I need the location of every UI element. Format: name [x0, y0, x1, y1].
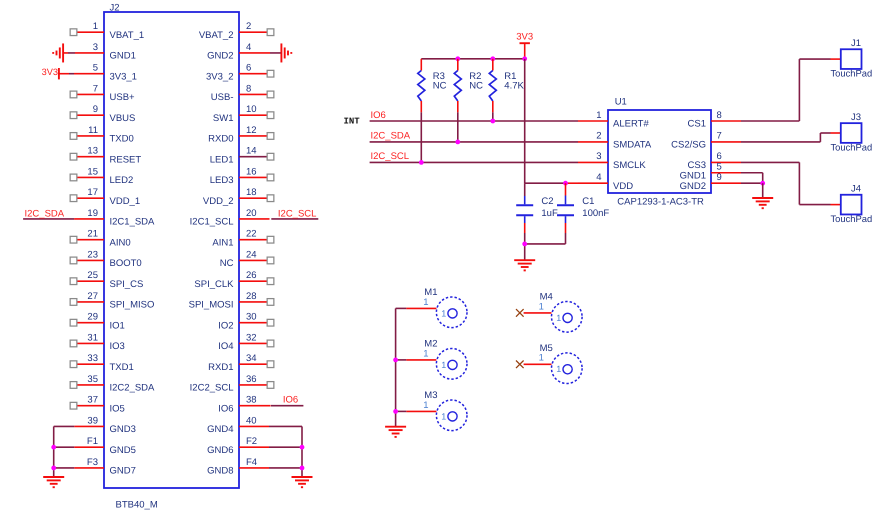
svg-text:I2C_SDA: I2C_SDA — [25, 209, 65, 220]
J2 pin 27 (SPI_MISO) — [70, 291, 154, 311]
svg-text:TXD1: TXD1 — [110, 362, 134, 373]
svg-text:16: 16 — [246, 166, 257, 177]
svg-text:VDD_1: VDD_1 — [110, 196, 141, 207]
J2 pin 5 (3V3_1) — [59, 63, 137, 83]
J2 pin 37 (IO5) — [70, 395, 125, 415]
svg-text:LED3: LED3 — [210, 175, 234, 186]
no-connect X at M5 — [516, 361, 524, 369]
net label I2C_SCL (at U1) — [371, 151, 410, 162]
wire M2 stub — [396, 359, 437, 361]
svg-text:SPI_MISO: SPI_MISO — [110, 300, 155, 311]
svg-text:TouchPad: TouchPad — [830, 141, 872, 152]
net label IO6 (at INT wire) — [371, 110, 386, 121]
svg-text:F1: F1 — [87, 436, 98, 447]
svg-text:IO3: IO3 — [110, 341, 125, 352]
U1 pin 8 (CS1) — [688, 110, 741, 130]
svg-text:1: 1 — [441, 308, 446, 318]
port INT — [344, 117, 361, 127]
wire R3 bottom to net — [420, 112, 422, 162]
wire 3V3 vertical down to VDD node — [524, 59, 526, 183]
svg-text:USB-: USB- — [211, 92, 234, 103]
resistor R1 (4.7K) — [489, 59, 524, 113]
J2 pin 14 (LED1) — [210, 146, 274, 166]
junction rail at R2 — [455, 56, 460, 61]
svg-text:1: 1 — [441, 360, 446, 370]
J2 pin 33 (TXD1) — [70, 353, 134, 373]
svg-text:J3: J3 — [851, 112, 861, 123]
svg-text:35: 35 — [87, 374, 98, 385]
U1 pin 3 (SMCLK) — [578, 151, 646, 171]
net label I2C_SDA (left) — [25, 209, 65, 220]
J2 pin 25 (SPI_CS) — [70, 270, 143, 290]
svg-text:TouchPad: TouchPad — [830, 213, 872, 224]
svg-text:2: 2 — [246, 21, 251, 32]
wire net I2C_SCL (J2 pin 20) — [271, 218, 318, 220]
svg-text:18: 18 — [246, 187, 257, 198]
svg-text:22: 22 — [246, 229, 257, 240]
J2 pin 2 (VBAT_2) — [199, 21, 274, 41]
J2 pin F2 (GND6) — [207, 436, 302, 456]
svg-text:F2: F2 — [246, 436, 257, 447]
junction at F4/GND8 — [300, 466, 305, 471]
svg-text:I2C_SDA: I2C_SDA — [371, 131, 411, 142]
op-amp / IC U1 body (CAP1293-1-AC3-TR) — [608, 97, 711, 208]
resistor R3 (NC) — [418, 59, 447, 113]
ground symbol at J2 pin 4 — [281, 43, 291, 62]
svg-text:USB+: USB+ — [110, 92, 136, 103]
J2 pin 30 (IO2) — [218, 312, 274, 332]
svg-text:1: 1 — [423, 348, 428, 359]
svg-text:SMDATA: SMDATA — [613, 140, 652, 151]
J2 pin 9 (VBUS) — [70, 104, 135, 124]
U1 pin 2 (SMDATA) — [578, 131, 652, 151]
U1 pin 4 (VDD) — [578, 172, 633, 192]
svg-text:C1: C1 — [582, 196, 594, 207]
svg-text:I2C_SCL: I2C_SCL — [278, 209, 317, 220]
svg-text:CS3: CS3 — [688, 160, 706, 171]
U1 pin 6 (CS3) — [688, 151, 741, 171]
svg-text:12: 12 — [246, 125, 257, 136]
svg-text:TXD0: TXD0 — [110, 134, 134, 145]
J2 pin 13 (RESET) — [70, 146, 141, 166]
svg-text:24: 24 — [246, 249, 257, 260]
J2 pin 28 (SPI_MOSI) — [189, 291, 274, 311]
svg-text:3V3_2: 3V3_2 — [206, 71, 233, 82]
svg-text:I2C1_SDA: I2C1_SDA — [110, 217, 156, 228]
svg-text:10: 10 — [246, 104, 257, 115]
svg-text:F4: F4 — [246, 457, 257, 468]
wire INT / IO6 to U1 ALERT# — [370, 120, 578, 122]
svg-text:19: 19 — [87, 208, 98, 219]
J2 pin 31 (IO3) — [70, 332, 125, 352]
wire U1 ground stem — [762, 183, 764, 198]
svg-text:RESET: RESET — [110, 154, 142, 165]
junction at M2 — [393, 358, 398, 363]
J2 pin 4 (GND2) — [207, 42, 281, 62]
svg-text:IO1: IO1 — [110, 320, 125, 331]
J2 pin 15 (LED2) — [70, 166, 133, 186]
wire M5 stub — [524, 363, 552, 365]
svg-text:13: 13 — [87, 146, 98, 157]
U1 pin 1 (ALERT#) — [578, 110, 649, 130]
svg-text:SW1: SW1 — [213, 113, 234, 124]
junction R3 at net — [419, 160, 424, 165]
svg-text:IO6: IO6 — [371, 110, 386, 121]
svg-text:2: 2 — [596, 131, 601, 142]
U1 pin 7 (CS2/SG) — [671, 131, 741, 151]
svg-text:9: 9 — [93, 104, 98, 115]
svg-text:1uF: 1uF — [541, 208, 558, 219]
J2 pin 21 (AIN0) — [70, 229, 130, 249]
mounting hole M3 — [423, 390, 467, 431]
svg-text:GND1: GND1 — [110, 51, 136, 62]
wire R1 bottom to net — [492, 112, 494, 121]
wire M4 stub — [524, 312, 552, 314]
svg-text:8: 8 — [246, 83, 251, 94]
mounting hole M2 — [423, 339, 467, 380]
svg-text:23: 23 — [87, 249, 98, 260]
svg-text:39: 39 — [87, 415, 98, 426]
svg-text:CS1: CS1 — [688, 119, 706, 130]
svg-text:6: 6 — [717, 151, 722, 162]
J2 pin 8 (USB-) — [211, 83, 274, 103]
svg-text:38: 38 — [246, 395, 257, 406]
svg-text:40: 40 — [246, 415, 257, 426]
connector J3 (TouchPad) — [830, 112, 872, 152]
wire U1 GND1 to GND2 — [741, 173, 763, 183]
svg-text:GND2: GND2 — [207, 51, 233, 62]
svg-text:30: 30 — [246, 312, 257, 323]
svg-text:26: 26 — [246, 270, 257, 281]
junction rail at 3V3 drop — [522, 56, 527, 61]
J2 pin F1 (GND5) — [54, 436, 136, 456]
svg-text:4.7K: 4.7K — [504, 80, 524, 91]
wire 3V3 rail over resistors — [421, 58, 524, 60]
connector J1 (TouchPad) — [830, 38, 872, 78]
svg-text:GND5: GND5 — [110, 445, 136, 456]
svg-text:SPI_MOSI: SPI_MOSI — [189, 300, 234, 311]
connector J4 (TouchPad) — [830, 184, 872, 224]
U1 pin 5 (GND1) — [680, 162, 741, 182]
svg-text:21: 21 — [87, 229, 98, 240]
svg-text:VBUS: VBUS — [110, 113, 136, 124]
J2 pin 3 (GND1) — [63, 42, 136, 62]
svg-text:GND3: GND3 — [110, 424, 136, 435]
svg-text:SMCLK: SMCLK — [613, 160, 646, 171]
svg-text:29: 29 — [87, 312, 98, 323]
svg-text:5: 5 — [717, 162, 722, 173]
svg-text:27: 27 — [87, 291, 98, 302]
J2 pin 6 (3V3_2) — [206, 63, 274, 83]
svg-text:I2C2_SCL: I2C2_SCL — [190, 383, 234, 394]
svg-text:31: 31 — [87, 332, 98, 343]
svg-text:34: 34 — [246, 353, 257, 364]
svg-text:11: 11 — [88, 125, 98, 136]
svg-text:4: 4 — [596, 172, 601, 183]
svg-text:3V3: 3V3 — [516, 32, 533, 43]
svg-text:I2C_SCL: I2C_SCL — [371, 151, 410, 162]
svg-text:LED1: LED1 — [210, 154, 234, 165]
wire mounting-hole ground bus — [395, 308, 397, 426]
svg-text:GND2: GND2 — [680, 181, 706, 192]
J2 pin 32 (IO4) — [218, 332, 274, 352]
svg-text:AIN1: AIN1 — [212, 237, 233, 248]
svg-text:IO6: IO6 — [283, 394, 298, 405]
J2 pin 39 (GND3) — [54, 415, 136, 435]
svg-text:5: 5 — [93, 63, 98, 74]
svg-text:J2: J2 — [110, 3, 120, 14]
svg-text:36: 36 — [246, 374, 257, 385]
svg-text:1: 1 — [556, 364, 561, 374]
svg-text:I2C2_SDA: I2C2_SDA — [110, 383, 156, 394]
mounting hole M4 — [539, 292, 583, 333]
svg-text:14: 14 — [246, 146, 257, 157]
svg-text:IO4: IO4 — [218, 341, 233, 352]
svg-text:1: 1 — [423, 400, 428, 411]
wire GND bus right of J2 (pins 40/F2/F4) — [301, 426, 303, 477]
svg-text:BOOT0: BOOT0 — [110, 258, 142, 269]
svg-text:IO2: IO2 — [218, 320, 233, 331]
J2 pin 12 (RXD0) — [208, 125, 274, 145]
svg-text:25: 25 — [87, 270, 98, 281]
junction at F3/GND7 — [51, 466, 56, 471]
svg-text:AIN0: AIN0 — [110, 237, 131, 248]
svg-text:6: 6 — [246, 63, 251, 74]
J2 pin F4 (GND8) — [207, 457, 302, 477]
junction at F2/GND6 — [300, 445, 305, 450]
wire net IO6 (J2 pin 38) — [271, 405, 303, 407]
svg-text:INT: INT — [344, 117, 361, 127]
svg-text:RXD1: RXD1 — [208, 362, 233, 373]
no-connect X at M4 — [516, 309, 524, 317]
ground at U1 — [752, 198, 773, 208]
svg-text:7: 7 — [93, 83, 98, 94]
svg-text:VBAT_1: VBAT_1 — [110, 30, 145, 41]
ground below C2/C1 — [514, 260, 535, 270]
svg-text:ALERT#: ALERT# — [613, 119, 649, 130]
svg-text:3V3: 3V3 — [42, 67, 58, 77]
resistor R2 (NC) — [454, 59, 483, 113]
J2 pin 10 (SW1) — [213, 104, 274, 124]
J2 pin 22 (AIN1) — [212, 229, 273, 249]
wire CS net to J1 — [741, 59, 831, 121]
svg-text:17: 17 — [87, 187, 98, 198]
ground below J2 left — [43, 477, 64, 487]
J2 pin 34 (RXD1) — [208, 353, 274, 373]
svg-text:28: 28 — [246, 291, 257, 302]
svg-text:1: 1 — [556, 313, 561, 323]
junction R2 at net — [455, 140, 460, 145]
svg-text:IO5: IO5 — [110, 403, 125, 414]
svg-text:SPI_CS: SPI_CS — [110, 279, 144, 290]
wire I2C_SCL to U1 SMCLK — [370, 161, 578, 163]
mounting hole M5 — [539, 343, 583, 384]
power symbol 3V3 (top) — [516, 32, 533, 59]
svg-text:VDD: VDD — [613, 181, 633, 192]
junction R1 at net — [490, 119, 495, 124]
wire CS net to J4 — [741, 162, 831, 204]
svg-text:SPI_CLK: SPI_CLK — [194, 279, 234, 290]
J2 pin 18 (VDD_2) — [203, 187, 274, 207]
J2 pin 35 (I2C2_SDA) — [70, 374, 155, 394]
junction at F1/GND5 — [51, 445, 56, 450]
svg-text:3: 3 — [93, 42, 98, 53]
svg-text:LED2: LED2 — [110, 175, 134, 186]
wire C2/C1 bottoms to ground — [525, 244, 566, 260]
svg-text:37: 37 — [87, 395, 98, 406]
svg-text:4: 4 — [246, 42, 251, 53]
svg-text:9: 9 — [717, 172, 722, 183]
svg-text:NC: NC — [433, 80, 447, 91]
svg-text:VBAT_2: VBAT_2 — [199, 30, 234, 41]
net label I2C_SCL (right of J2) — [278, 209, 317, 220]
net label IO6 (right of J2) — [283, 394, 298, 405]
J2 pin 1 (VBAT_1) — [70, 21, 144, 41]
net label I2C_SDA (at U1) — [371, 131, 411, 142]
J2 pin 29 (IO1) — [70, 312, 125, 332]
capacitor C2 (1uF) — [516, 183, 558, 244]
J2 pin 40 (GND4) — [207, 415, 302, 435]
svg-text:RXD0: RXD0 — [208, 134, 233, 145]
J2 pin 17 (VDD_1) — [70, 187, 140, 207]
svg-text:8: 8 — [717, 110, 722, 121]
capacitor C1 (100nF) — [557, 183, 609, 244]
svg-text:U1: U1 — [615, 97, 627, 108]
svg-text:1: 1 — [93, 21, 98, 32]
J2 pin 23 (BOOT0) — [70, 249, 142, 269]
ground symbol at J2 pin 3 — [53, 43, 63, 62]
svg-text:BTB40_M: BTB40_M — [116, 500, 158, 511]
J2 pin 26 (SPI_CLK) — [194, 270, 273, 290]
ground below M3 — [385, 427, 406, 437]
wire VDD node to U1 pin 4 — [525, 182, 578, 184]
svg-text:F3: F3 — [87, 457, 98, 468]
junction C1 tap at VDD — [563, 181, 568, 186]
J2 pin F3 (GND7) — [54, 457, 136, 477]
J2 pin 11 (TXD0) — [70, 125, 134, 145]
svg-text:GND1: GND1 — [680, 170, 706, 181]
wire M3 stub — [396, 410, 437, 412]
svg-text:J4: J4 — [851, 184, 861, 195]
svg-text:100nF: 100nF — [582, 208, 609, 219]
svg-text:GND6: GND6 — [207, 445, 233, 456]
J2 pin 36 (I2C2_SCL) — [190, 374, 274, 394]
svg-text:GND8: GND8 — [207, 466, 233, 477]
J2 pin 20 (I2C1_SCL) — [190, 208, 270, 228]
svg-text:GND7: GND7 — [110, 466, 136, 477]
wire CS net to J3 — [741, 133, 831, 142]
junction at U1 ground node — [760, 181, 765, 186]
svg-text:C2: C2 — [541, 196, 553, 207]
J2 pin 38 (IO6) — [218, 395, 270, 415]
svg-text:CAP1293-1-AC3-TR: CAP1293-1-AC3-TR — [617, 197, 704, 208]
svg-text:3: 3 — [596, 151, 601, 162]
wire I2C_SDA to U1 SMDATA — [370, 141, 578, 143]
svg-text:IO6: IO6 — [218, 403, 233, 414]
svg-text:1: 1 — [441, 411, 446, 421]
svg-text:1: 1 — [539, 353, 544, 364]
J2 pin 16 (LED3) — [210, 166, 274, 186]
svg-text:32: 32 — [246, 332, 257, 343]
U1 pin 9 (GND2) — [680, 172, 741, 192]
svg-text:TouchPad: TouchPad — [830, 68, 872, 79]
wire M1 stub — [396, 307, 437, 309]
svg-text:20: 20 — [246, 208, 257, 219]
svg-text:15: 15 — [87, 166, 98, 177]
wire GND bus left of J2 (pins 39/F1/F3) — [53, 426, 55, 477]
svg-text:NC: NC — [469, 80, 483, 91]
J2 pin 7 (USB+) — [70, 83, 135, 103]
svg-text:1: 1 — [596, 110, 601, 121]
svg-text:I2C1_SCL: I2C1_SCL — [190, 217, 234, 228]
svg-text:VDD_2: VDD_2 — [203, 196, 234, 207]
junction at C2 ground node — [522, 242, 527, 247]
mounting hole M1 — [423, 287, 467, 328]
svg-text:CS2/SG: CS2/SG — [671, 140, 706, 151]
svg-text:7: 7 — [717, 131, 722, 142]
junction at M3 — [393, 409, 398, 414]
svg-text:J1: J1 — [851, 38, 861, 49]
ground below J2 right — [292, 477, 313, 487]
svg-text:NC: NC — [220, 258, 234, 269]
svg-text:33: 33 — [87, 353, 98, 364]
svg-text:1: 1 — [423, 297, 428, 308]
J2 pin 24 (NC) — [220, 249, 274, 269]
wire R2 bottom to net — [457, 112, 459, 142]
wire net I2C_SDA (J2 pin 19) — [23, 218, 74, 220]
svg-text:GND4: GND4 — [207, 424, 233, 435]
svg-text:3V3_1: 3V3_1 — [110, 71, 137, 82]
power symbol 3V3 at J2 pin 5 — [42, 67, 59, 80]
connector J2 body (BTB40_M) — [104, 3, 239, 511]
J2 pin 19 (I2C1_SDA) — [74, 208, 155, 228]
junction rail at R1 — [490, 56, 495, 61]
svg-text:1: 1 — [539, 301, 544, 312]
